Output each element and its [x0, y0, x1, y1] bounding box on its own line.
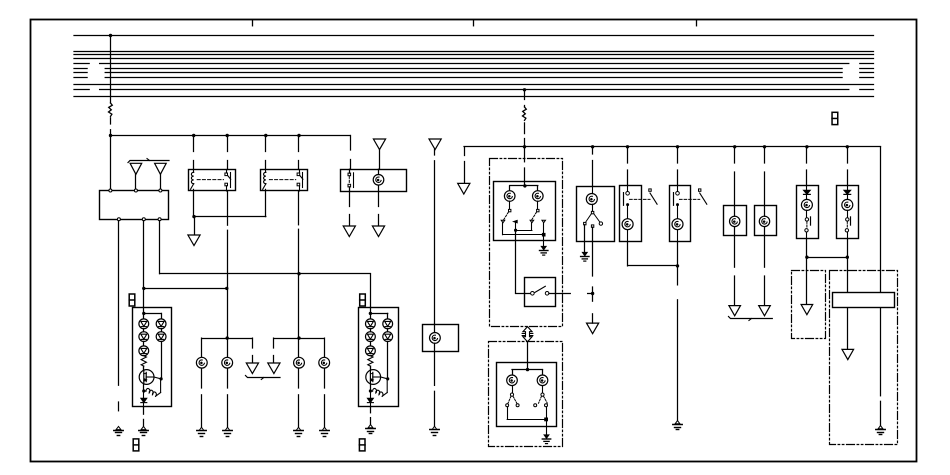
- wire: S1 ground leg: [543, 235, 545, 247]
- node W1-relay2 coil: [264, 134, 267, 137]
- wire: stub to relay2 switch: [298, 136, 300, 152]
- lamp L2 (front turn): [222, 357, 233, 368]
- wire: H2 right corner drop: [880, 147, 882, 292]
- S3 blade a1: [508, 396, 511, 403]
- top border tick 3: [696, 20, 698, 26]
- indicator cluster 2 diode D: [367, 398, 373, 402]
- ground G1: [116, 426, 121, 429]
- wire: W3 node to cluster 1: [143, 288, 145, 307]
- S1 throw a2: [514, 220, 518, 222]
- wire: U1 pin b1 ground run: [118, 221, 120, 386]
- door warning N2 bar: [673, 193, 675, 206]
- U4 pin stub top: [592, 186, 594, 193]
- wire: A2 stem: [160, 174, 162, 189]
- wire: U3 to ground: [434, 352, 436, 386]
- bracket under T pair: [246, 376, 281, 378]
- indicator cluster 1 branch wire: [144, 313, 161, 315]
- node W1-relay2 sw: [297, 134, 300, 137]
- wire W2: [194, 216, 266, 218]
- S1 node entry: [523, 184, 526, 187]
- connector triangle below U4: [587, 323, 599, 334]
- lamp L3 (rear turn): [294, 357, 305, 368]
- S1 pole contact b: [537, 209, 539, 211]
- indicator cluster 2 node below Q: [369, 389, 372, 392]
- node W3 right: [225, 287, 228, 290]
- connector triangle in D3: [801, 305, 813, 315]
- U2 switch contact top: [348, 173, 351, 176]
- U4 throw right: [599, 222, 602, 225]
- indicator cluster 1 entry wire: [143, 307, 145, 319]
- wire W4' right pair: [274, 338, 324, 340]
- ground G12: [675, 421, 680, 424]
- D1/D2 boundary crossing symbol (double arrow): [523, 327, 532, 342]
- interior lamp Q2 diode: [844, 190, 851, 194]
- indicator cluster 2 LED 2: [366, 332, 376, 342]
- connector below cluster 1: [133, 439, 139, 451]
- connector triangle above U2: [373, 139, 385, 150]
- node: H2-N2: [676, 145, 679, 148]
- S3 wire bulb a: [512, 386, 514, 394]
- hazard switch S2 box: [525, 278, 556, 307]
- S1 pilot bulb a: [504, 191, 515, 202]
- indicator cluster 1 LED 5: [156, 332, 166, 342]
- interior lamp Q2 pin top: [847, 186, 849, 191]
- wire: stub to relay1 coil: [193, 136, 195, 152]
- indicator cluster 2 transistor Q: [366, 370, 381, 385]
- pin: U1 bottom 1: [117, 218, 120, 221]
- wire: W4 drop to triangle: [252, 338, 254, 348]
- wire: below U2 left pin: [349, 191, 351, 206]
- marker lamp P1 box: [724, 206, 747, 236]
- wire W5: [806, 239, 808, 258]
- interior lamp Q1 switch c2: [805, 229, 808, 232]
- node: K1 coil / W2: [192, 215, 195, 218]
- S3 throw b2: [545, 404, 548, 407]
- U2 pin stubs: [349, 169, 351, 173]
- indicator cluster 1 right branch to Q: [161, 342, 163, 379]
- P1 bulb: [730, 216, 740, 226]
- ground G13: [878, 426, 883, 429]
- wire: N1 feed: [627, 147, 629, 163]
- wire: D4 ground run: [880, 308, 882, 396]
- wire: stub to relay1 switch: [227, 136, 229, 152]
- indicator cluster 1 LED 4: [156, 319, 166, 329]
- ground G9 (in D1): [541, 246, 546, 250]
- door warning N1 ext switch contact: [649, 189, 651, 191]
- interior lamp Q2 switch bar: [850, 217, 852, 225]
- interior lamp Q2 box: [837, 186, 859, 239]
- wire: K1 coil to node: [193, 191, 195, 217]
- indicator cluster 2 node split: [369, 312, 372, 315]
- wire: triangle to U2: [379, 150, 381, 170]
- pin: U1 bottom 2: [142, 218, 145, 221]
- S1 node y234.7: [542, 233, 545, 236]
- indicator cluster 2 LED 3: [366, 346, 376, 356]
- bus wire H2: [464, 146, 881, 148]
- interior lamp Q1 pin top: [806, 186, 808, 191]
- node: H2/hazard: [523, 145, 526, 148]
- door warning N2 ext switch blade: [700, 193, 707, 204]
- door warning N2 contact dot: [676, 203, 679, 206]
- interior lamp Q2 wire: [847, 194, 849, 199]
- wire: U4 left to ground: [584, 225, 586, 253]
- S3 node entry: [526, 368, 529, 371]
- U4 throw left: [584, 222, 586, 224]
- U2 sensor bulb: [373, 175, 384, 186]
- bus wire B6: [74, 68, 87, 70]
- indicator cluster 2 exit wire: [370, 407, 372, 413]
- marker lamp P2 box: [755, 206, 777, 236]
- indicator cluster 2 LED 5: [383, 332, 393, 342]
- wire: W4 to lamp L1: [201, 338, 203, 357]
- indicator cluster 2 LED 1: [366, 319, 376, 329]
- lamp L4 (rear turn): [319, 357, 330, 368]
- U2 switch bar: [353, 173, 355, 188]
- interior lamp Q2 switch c2: [845, 229, 848, 232]
- wire W3 (U1 b2): [143, 221, 145, 289]
- interior lamp Q1 diode: [804, 190, 811, 194]
- relay K1 (turn signal relay): [189, 170, 236, 191]
- connector below cluster 2: [359, 439, 365, 451]
- connector triangle below P1: [729, 306, 741, 316]
- wire: W4' drop to triangle: [273, 338, 275, 348]
- indicator cluster 2 resistor R: [368, 356, 373, 366]
- S3 wire bulb b: [542, 386, 544, 394]
- S3 split wire: [512, 369, 543, 371]
- wire: K1 switch down to lamp: [227, 191, 229, 225]
- indicator cluster 1 coil riser: [160, 381, 162, 393]
- indicator cluster 2 connector: [360, 294, 366, 306]
- S1 blade b: [532, 212, 537, 220]
- wire: L1 to ground: [201, 368, 203, 388]
- S3 throw a2: [516, 404, 519, 407]
- wire: L2 to ground: [227, 368, 229, 388]
- wire: sensor feed: [434, 150, 436, 155]
- door warning N1 dashed link: [630, 198, 650, 200]
- indicator cluster 2 wire led1-2: [370, 329, 372, 332]
- S3 blade b1: [539, 396, 542, 403]
- wire: N1 out corner: [627, 242, 629, 266]
- interior lamp Q2 bulb: [842, 199, 853, 210]
- wire: stub to relay2 coil: [265, 136, 267, 152]
- node: H2-P2: [763, 145, 766, 148]
- interior lamp Q2 switch c1: [846, 218, 849, 221]
- top border tick 1: [252, 20, 254, 26]
- S3 pole contact a: [510, 393, 513, 396]
- S1 blade a: [504, 212, 509, 220]
- connector triangle T-right: [268, 363, 280, 374]
- S1 split wire: [510, 185, 538, 187]
- wire: N2 out to ground: [677, 242, 679, 266]
- indicator cluster 1 wire into Q: [143, 366, 145, 370]
- interior lamp Q1 bulb: [801, 199, 812, 210]
- door warning N2 pin wire bottom: [677, 230, 679, 242]
- ground G10 (in D2): [544, 435, 549, 439]
- interior lamp Q1 wire: [806, 194, 808, 199]
- junction block R1: [833, 293, 895, 308]
- node: junction feed/W1: [109, 134, 112, 137]
- wire: Q1 feed: [806, 147, 808, 163]
- bus wire B3: [74, 54, 874, 56]
- node W3 left: [142, 287, 145, 290]
- fusible link FL1: [109, 103, 113, 116]
- S1 pilot bulb b: [533, 191, 544, 202]
- wire: node to triangle: [194, 217, 196, 235]
- S1 wire y230: [515, 223, 517, 230]
- wire: stub to triangle: [592, 314, 594, 323]
- wire: flasher feed: [592, 147, 594, 154]
- indicator cluster 1 exit wire: [143, 407, 145, 414]
- interior lamp Q2 switch dashes: [846, 221, 848, 228]
- interior lamp Q1 pin bottom: [806, 232, 808, 238]
- wire: R1 down: [847, 308, 849, 350]
- pin: U1 top 3: [159, 189, 162, 192]
- indicator cluster 2 coil riser: [386, 381, 388, 393]
- indicator cluster 1 wire below Q: [143, 384, 145, 389]
- ground G11: [582, 252, 587, 256]
- S1 throw b2: [542, 220, 546, 223]
- speed sensor box U3: [423, 325, 459, 352]
- S1 wire y234.7: [502, 223, 504, 235]
- top border tick 2: [473, 20, 475, 26]
- indicator cluster 1 coil W: [146, 389, 156, 397]
- node W4': [297, 336, 300, 339]
- ground G6: [296, 427, 301, 430]
- wire: L4 to ground: [324, 368, 326, 388]
- component group D4 boundary: [830, 271, 898, 445]
- node: N join: [676, 264, 679, 267]
- wire: A1 stem: [135, 174, 137, 189]
- node W3'-K2 line: [297, 272, 300, 275]
- S1 wire bulb b: [537, 201, 539, 209]
- wire: S2 output: [549, 293, 570, 295]
- ground G8: [432, 426, 437, 429]
- wire: K2 switch down to lamp: [298, 191, 300, 225]
- connector triangle above sensor line: [429, 139, 441, 150]
- wire: W1 corner drop to switch box: [350, 136, 352, 151]
- interior lamp Q1 switch bar: [810, 217, 812, 225]
- connector triangle below K1: [188, 235, 200, 246]
- indicator cluster 1 node Q gate: [160, 377, 163, 380]
- connector triangle below R1: [842, 349, 854, 359]
- U4 blade left: [586, 214, 591, 222]
- indicator cluster 2 wire to transistor: [370, 366, 372, 369]
- interior lamp Q2 wire2: [847, 210, 849, 217]
- S3 pole contact b: [541, 393, 544, 396]
- hazard unit S3 box: [497, 363, 557, 427]
- door warning N1 bar: [623, 193, 625, 206]
- U2 sensor pin stubs: [378, 169, 380, 174]
- wire: L3 to ground: [298, 368, 300, 388]
- connector bracket above meter: [128, 161, 169, 163]
- node: S2 out / flasher line: [591, 292, 594, 295]
- indicator cluster 2 wire below Q: [370, 384, 372, 389]
- component group D1 boundary: [490, 159, 563, 327]
- node W1-relay1 coil: [192, 134, 195, 137]
- wire W1 horizontal feed: [111, 135, 351, 137]
- indicator cluster 1 LED 1: [139, 319, 149, 329]
- wire: P1 down: [734, 236, 736, 268]
- connector triangle below P2: [759, 306, 771, 316]
- indicator cluster 1 wire led4-5: [161, 329, 163, 332]
- door warning N2 ext switch contact: [699, 189, 701, 191]
- interior lamp Q2 pin bottom: [847, 232, 849, 238]
- indicator cluster 1 connector: [129, 294, 135, 306]
- door warning N2 dashed link: [680, 198, 700, 200]
- node W5 right: [846, 256, 849, 259]
- pin: U1 top 2: [134, 189, 137, 192]
- node: tap on B10: [523, 88, 526, 91]
- wire: hazard feed upper: [524, 90, 526, 100]
- connector triangle below U2 pin2: [372, 226, 384, 237]
- U4 wire below bulb: [592, 204, 594, 211]
- relay K2: [261, 170, 308, 191]
- indicator cluster 1 node below Q: [142, 389, 145, 392]
- wire: P1 feed: [734, 147, 736, 163]
- indicator cluster 1 diode D: [141, 398, 147, 402]
- S3 wire y419: [507, 407, 509, 420]
- door warning N1 contact dot: [626, 203, 629, 206]
- door warning N1 ext switch blade: [650, 193, 657, 204]
- ground G4: [199, 427, 204, 430]
- ground G2: [141, 426, 146, 429]
- pin: U1 bottom 3: [158, 218, 161, 221]
- indicator cluster 2 wire Q-gate link: [381, 376, 388, 378]
- U4 pole contact: [591, 211, 593, 213]
- indicator cluster 1 node split: [142, 312, 145, 315]
- indicator cluster 2 coil W: [373, 389, 383, 397]
- indicator cluster 1 LED 3: [139, 346, 149, 356]
- bus wire B9: [74, 84, 874, 86]
- bus wire B1 (top feed): [74, 35, 874, 37]
- node: H2-P1: [733, 145, 736, 148]
- indicator cluster 2 right branch to Q: [387, 342, 389, 379]
- bus wire B5: [74, 63, 89, 65]
- connector (top right): [832, 112, 838, 124]
- connector triangle T-left: [246, 363, 258, 374]
- connector triangle H2-left: [458, 183, 470, 194]
- wire: feed drop from B1: [110, 36, 112, 104]
- indicator cluster 1 transistor Q: [139, 370, 154, 385]
- S3 throw b1: [534, 404, 537, 407]
- S3 node y419: [545, 418, 548, 421]
- door warning N1 pin wire: [627, 185, 629, 191]
- bus wire B11: [74, 96, 874, 98]
- ground G5: [225, 427, 230, 430]
- door warning N1 box: [620, 186, 642, 242]
- door warning N1 wire mid: [627, 206, 629, 219]
- fusible link FL2: [523, 107, 527, 120]
- U3 pin stubs: [434, 324, 436, 332]
- bracket under P triangles: [729, 317, 773, 319]
- node: tap on B1: [109, 34, 112, 37]
- node: H2-Q1: [805, 145, 808, 148]
- indicator cluster 1 wire led2-3: [143, 342, 145, 346]
- S3 blade b2: [544, 396, 548, 403]
- lamp L1 (front turn): [196, 357, 207, 368]
- pin: U1 top 1: [109, 189, 112, 192]
- connector triangle below U2 pin1: [343, 226, 355, 237]
- wire: into D4: [847, 257, 849, 292]
- S1 throw a1: [501, 220, 505, 223]
- door warning N2 pin wire: [677, 185, 679, 191]
- indicator cluster 2 node Q gate: [386, 377, 389, 380]
- indicator cluster 1 housing: [133, 308, 172, 407]
- bus wire B8: [74, 77, 87, 79]
- wire: into D3: [806, 257, 808, 304]
- connector triangle A1: [130, 163, 142, 174]
- indicator cluster 2 wire led2-3: [370, 342, 372, 346]
- door warning N2 wire mid: [677, 206, 679, 219]
- wire: S1 output down: [515, 230, 517, 293]
- switch/sensor box U2: [341, 170, 407, 192]
- wire: into S2: [516, 293, 531, 295]
- S3 blade a2: [513, 396, 517, 403]
- indicator cluster 2 housing: [359, 308, 399, 407]
- U4 blade right: [594, 214, 600, 222]
- door warning N1 bulb: [622, 219, 633, 230]
- S3 throw a1: [506, 404, 509, 407]
- S2 contact 2: [545, 292, 549, 296]
- bus wire B2: [74, 51, 874, 53]
- door warning N2 contact circle: [676, 192, 680, 196]
- indicator cluster 1 wire to transistor: [143, 366, 145, 369]
- node: H2 tap flasher: [591, 145, 594, 148]
- indicator cluster 1 resistor R: [141, 356, 146, 366]
- S2 contact 1: [531, 292, 535, 296]
- wire: W3' drop to lamp box 2: [370, 274, 372, 308]
- S3 pilot bulb b: [537, 375, 548, 386]
- component group D3 boundary: [792, 271, 826, 339]
- node W4: [226, 336, 229, 339]
- U3 sensor bulb: [430, 333, 441, 344]
- node: H2-N1: [626, 145, 629, 148]
- wire: P2 down: [764, 236, 766, 268]
- bus wire B7: [74, 72, 87, 74]
- door warning N1 contact circle: [626, 192, 630, 196]
- U4 centre contact: [591, 225, 593, 227]
- indicator cluster 2 wire led4-5: [387, 329, 389, 332]
- wire: U4 output down: [592, 227, 594, 241]
- P2 bulb: [759, 216, 769, 226]
- S1 wire bulb a: [509, 201, 511, 209]
- bus wire B4: [74, 58, 874, 60]
- door warning N2 box: [670, 186, 691, 242]
- indicator cluster 2 entry wire: [370, 307, 372, 319]
- S3 pilot bulb a: [507, 375, 518, 386]
- component group D2 boundary: [489, 342, 563, 447]
- integration relay U1 box: [100, 191, 169, 220]
- interior lamp Q1 box: [797, 186, 819, 239]
- P2 pin stubs: [764, 206, 766, 217]
- U4 bulb: [586, 194, 597, 205]
- indicator cluster 2 wire into Q: [370, 366, 372, 370]
- U2 switch dashes: [348, 176, 350, 184]
- wire: Q2 feed: [847, 147, 849, 163]
- interior lamp Q1 switch dashes: [806, 221, 808, 228]
- node: H2-Q2: [846, 145, 849, 148]
- interior lamp Q1 switch c1: [805, 218, 808, 221]
- ground G7: [322, 427, 327, 430]
- interior lamp Q1 wire2: [806, 210, 808, 217]
- wire: hazard feed lower: [524, 147, 526, 162]
- indicator cluster 2 LED 4: [383, 319, 393, 329]
- S1 pole contact a: [509, 209, 511, 211]
- U2 switch contact bottom: [348, 184, 351, 187]
- wire: W4' to lamp L4: [324, 338, 326, 357]
- node W5 left: [805, 256, 808, 259]
- door warning N1 pin wire bottom: [627, 230, 629, 242]
